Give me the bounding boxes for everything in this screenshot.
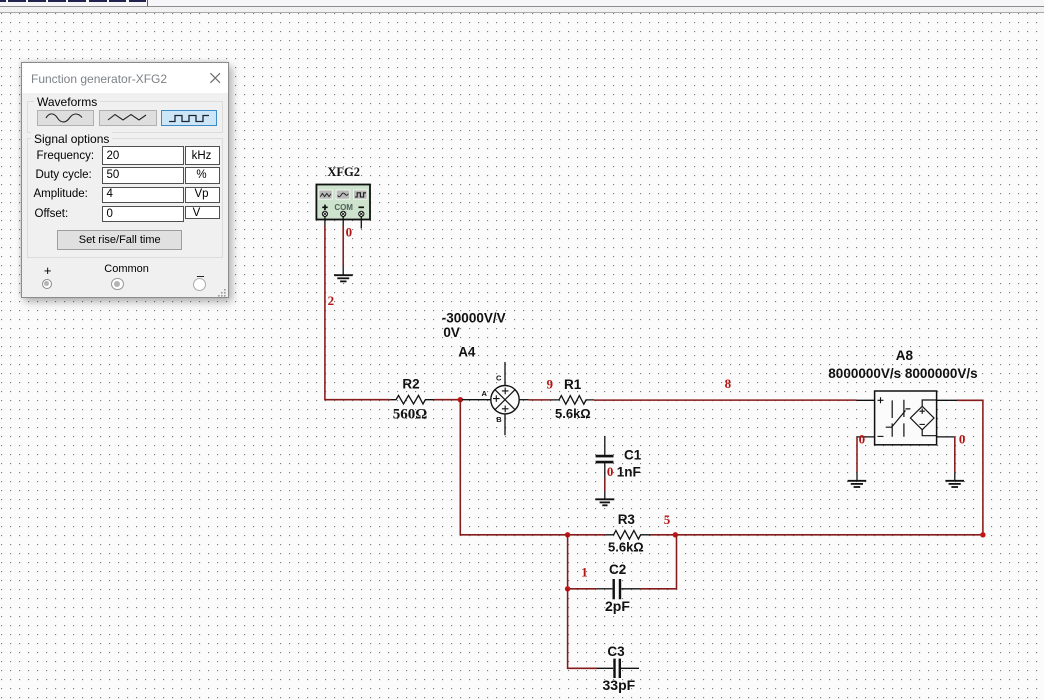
wire A8 minus to ground [856, 437, 858, 473]
A8 output stub top [937, 399, 957, 401]
C2 left lead [597, 588, 613, 590]
svg-text:9: 9 [547, 377, 554, 392]
svg-text:C1: C1 [624, 448, 642, 463]
XFG2 terminals [322, 211, 364, 216]
bottom radios [42, 263, 54, 278]
wire node down to bottom net [460, 400, 605, 535]
svg-text:A: A [482, 389, 488, 398]
resize grip [218, 289, 227, 297]
wire R3 right [651, 534, 676, 536]
svg-text:A4: A4 [458, 345, 476, 360]
resistor R3 [606, 512, 651, 555]
square button (selected) [161, 110, 217, 127]
XFG2 body [316, 185, 370, 220]
R1 body [551, 396, 595, 405]
svg-text:XFG2: XFG2 [327, 165, 360, 179]
rows: separate boxes [102, 146, 184, 165]
title bar [22, 63, 228, 93]
XFG2 square button [354, 190, 368, 199]
R2 body [390, 395, 434, 404]
svg-text:C2: C2 [609, 562, 626, 577]
multiplier A4 [462, 362, 529, 435]
A8 output stub bottom [937, 436, 955, 438]
ground (under C1) [595, 499, 614, 505]
svg-text:R3: R3 [618, 512, 636, 527]
wire R1 to A8 [594, 399, 857, 401]
svg-text:0: 0 [859, 432, 866, 447]
svg-text:COM: COM [334, 203, 353, 212]
A4 pin C lead [504, 362, 506, 385]
A8 pin + stub [857, 399, 875, 401]
Function generator dialog [21, 62, 229, 298]
op-amp gain block A4 labels [442, 311, 506, 360]
capacitor C3 [597, 644, 639, 693]
svg-text:C: C [496, 374, 502, 383]
svg-text:2: 2 [328, 293, 335, 308]
A4 output lead [519, 399, 528, 401]
wire XFG2 plus down and across [325, 226, 391, 400]
function generator XFG2 [316, 165, 370, 229]
svg-text:0: 0 [959, 432, 966, 447]
svg-text:B: B [496, 415, 502, 424]
svg-text:2pF: 2pF [605, 598, 630, 614]
A8 + pin marking [878, 397, 884, 403]
Waveforms group [27, 101, 223, 133]
ground (under XFG2) [334, 275, 353, 281]
wire A4 out to R1 [529, 399, 551, 401]
svg-text:0V: 0V [443, 325, 460, 340]
svg-text:1nF: 1nF [617, 464, 641, 479]
svg-text:1: 1 [581, 564, 588, 579]
svg-text:-30000V/V: -30000V/V [442, 311, 506, 326]
svg-text:0: 0 [346, 225, 353, 240]
A4 pin B lead [504, 414, 506, 435]
sine button [37, 110, 95, 126]
wire A8 output feedback [675, 400, 983, 535]
wire XFG2 COM down [342, 226, 344, 266]
wire down to C3 [568, 589, 597, 669]
svg-text:R2: R2 [402, 377, 419, 392]
C2 plates [614, 579, 620, 599]
junction (right of R3) [673, 532, 678, 537]
svg-text:R1: R1 [564, 377, 582, 392]
ground (A8 left) [848, 481, 867, 487]
comparator block A8 [857, 391, 958, 445]
svg-text:33pF: 33pF [603, 677, 636, 693]
wire C2 loop [568, 535, 597, 589]
junction (feedback corner) [980, 532, 985, 537]
A8 - pin marking [878, 435, 884, 437]
svg-text:5.6kΩ: 5.6kΩ [608, 539, 644, 554]
C3 left lead [597, 667, 613, 669]
top chrome [0, 0, 1044, 6]
junction (left of R3) [565, 532, 570, 537]
C1 top lead [604, 436, 606, 455]
svg-text:8: 8 [725, 376, 732, 391]
capacitor C1 [596, 436, 642, 479]
C2 right lead [621, 588, 640, 590]
A8 switch arm [886, 409, 911, 427]
wire R2 to node [434, 399, 460, 401]
A4 body circle [491, 386, 519, 414]
junction (C2 left) [565, 586, 570, 591]
XFG2 pin stubs [325, 217, 361, 229]
comparator block A8 labels [828, 348, 977, 381]
XFG2 triangle button [336, 190, 350, 199]
net 0 wire under C1 [604, 478, 606, 491]
Signal options group [27, 138, 223, 258]
wire A8 out2 to ground [954, 437, 956, 473]
pin + marking [322, 205, 328, 211]
svg-text:0: 0 [607, 464, 614, 479]
svg-text:8000000V/s 8000000V/s: 8000000V/s 8000000V/s [828, 366, 977, 381]
resistor R2 [390, 377, 434, 423]
A8 body box [875, 391, 937, 445]
svg-text:560Ω: 560Ω [393, 406, 428, 422]
capacitor C2 [597, 562, 641, 614]
svg-text:A8: A8 [896, 348, 914, 363]
C1 plates [596, 456, 614, 462]
svg-text:5.6kΩ: 5.6kΩ [555, 406, 591, 421]
A8 dependent source diamond [910, 406, 934, 430]
ground (A8 right) [945, 481, 964, 487]
XFG2 sine button [319, 190, 333, 199]
junction node 2/A [458, 397, 463, 402]
C1 bottom lead [604, 463, 606, 478]
svg-text:C3: C3 [607, 644, 625, 659]
A4 pin A lead [462, 399, 491, 401]
resistor R1 [551, 377, 595, 421]
C3 plates [615, 659, 620, 678]
R3 body [606, 531, 651, 540]
A8 pin - stub [857, 436, 875, 438]
svg-text:5: 5 [664, 512, 671, 527]
Set rise/Fall time button [57, 230, 182, 250]
triangle button [99, 110, 157, 126]
C3 right lead [621, 667, 639, 669]
pin - marking [359, 206, 365, 208]
